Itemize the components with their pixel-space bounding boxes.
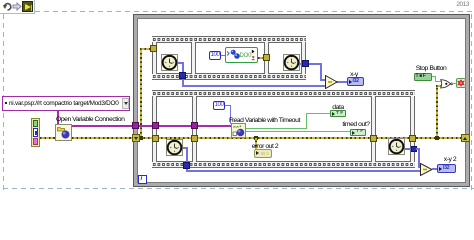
label x-y	[342, 71, 366, 78]
wire error drop to error out 2	[255, 138, 257, 151]
error wire open node to shift register	[72, 137, 133, 139]
wire 100 to read node	[225, 105, 231, 107]
numeric constant 100 (frame2)	[209, 51, 221, 60]
indicator data TF	[330, 110, 346, 117]
wire junction at error out 2 branch	[254, 136, 258, 140]
label error out 2	[246, 143, 284, 150]
page dashed boundary bottom	[3, 188, 474, 189]
toolbar icon forward arrow	[12, 2, 22, 11]
wire psp to open node	[57, 110, 59, 124]
page dashed boundary top	[35, 11, 474, 12]
wire 100 to DO0 node	[221, 55, 229, 57]
while loop	[133, 14, 470, 187]
flat sequence 1 frame divider 1	[191, 42, 196, 74]
right shift register	[461, 134, 470, 143]
Open Variable Connection node	[55, 124, 72, 141]
tunnel purple on while-loop border	[132, 122, 139, 129]
blue wire clock4 to subtract2	[405, 148, 413, 150]
blue wires top sequence clock 2	[300, 63, 321, 65]
purple wire open node to loop	[72, 125, 133, 127]
blue wires top sequence clock 1	[178, 62, 184, 64]
or gate	[440, 79, 454, 89]
label Open Variable Connection	[56, 116, 124, 123]
numeric constant 100 (bottom)	[213, 101, 225, 110]
error wire const to open node	[40, 137, 55, 139]
wire error main run inside loop	[139, 137, 462, 139]
indicator x-y 2 I32	[437, 164, 456, 173]
loop conditional terminal	[456, 78, 466, 88]
loop iteration terminal i	[138, 175, 147, 184]
flat sequence 1 top border	[152, 36, 306, 43]
toolbar box	[0, 0, 35, 14]
tunnel error on sequence 2 divider 1	[191, 135, 198, 142]
shared variable write node DO0	[225, 47, 258, 63]
purple wire inside loop to read node	[137, 125, 231, 127]
subtract node 1	[325, 75, 338, 89]
flat sequence 2 left border	[152, 96, 157, 162]
shared variable psp url constant	[2, 96, 130, 111]
wire junction at top-sequence error branch	[139, 136, 143, 140]
tunnel blue bottom border of bottom sequence	[183, 162, 190, 169]
blue wire clock3 down and along bottom	[183, 147, 187, 149]
error cluster constant	[31, 118, 40, 147]
tunnel blue bottom of top sequence	[179, 72, 186, 79]
wire junction at Or gate error branch	[435, 136, 439, 140]
label x-y 2	[438, 156, 462, 163]
subtract node 2	[420, 163, 433, 176]
indicator timed out TF	[350, 129, 366, 136]
error wire DO0 out	[258, 57, 267, 59]
clock wait ms frame3	[283, 54, 300, 71]
toolbar icon LabVIEW VI	[22, 1, 33, 12]
tunnel error into top sequence	[150, 45, 157, 52]
left shift register	[132, 134, 140, 142]
flat sequence 2 frame divider 2	[371, 96, 376, 162]
page dashed boundary left	[3, 13, 4, 190]
tunnel error on sequence 2 left border	[152, 135, 159, 142]
indicator error out 2	[254, 149, 272, 158]
tunnel purple on sequence 2 left border	[152, 122, 159, 129]
tunnel blue right border bottom sequence	[411, 146, 417, 152]
flat sequence 2 right border	[410, 96, 415, 162]
label Stop Button	[408, 65, 454, 72]
blue wire subtract2 to x-y 2 indicator	[432, 168, 438, 170]
blue wire subtract1 to x-y indicator	[336, 81, 347, 83]
label Read Variable with Timeout	[229, 117, 300, 124]
flat sequence 2 top border	[152, 90, 415, 97]
wire error branch up to Or gate	[436, 85, 438, 138]
flat sequence 1 right border	[301, 42, 306, 74]
label data	[326, 104, 350, 111]
Stop Button boolean control	[414, 73, 432, 81]
clock wait ms bottom frame4	[388, 138, 405, 155]
flat sequence 1 bottom border	[152, 73, 306, 80]
wire or gate to conditional terminal	[452, 83, 456, 84]
indicator x-y I32	[347, 77, 364, 86]
label timed out?	[340, 121, 372, 128]
green wire stop to or gate	[432, 76, 436, 77]
toolbar icon back-circle arrow	[2, 1, 13, 12]
flat sequence 1 frame divider 2	[264, 42, 269, 74]
tunnel purple on sequence 2 divider 1	[191, 122, 198, 129]
tunnel error on frame divider	[263, 54, 270, 61]
page dashed boundary right	[471, 11, 472, 190]
Read Variable node	[231, 123, 246, 138]
tunnel blue right of top sequence	[302, 60, 309, 67]
flat sequence 2 bottom border	[152, 161, 415, 168]
clock wait ms bottom frame1	[166, 139, 183, 156]
tunnel error on sequence 2 right border	[409, 135, 416, 142]
flat sequence 2 frame divider 1	[192, 96, 197, 162]
svg-text:DO0: DO0	[240, 53, 253, 59]
year label 2013	[445, 1, 469, 8]
flat sequence 1 left border	[152, 42, 157, 74]
green wire timed out	[246, 131, 350, 132]
tunnel error on sequence 2 divider 2	[370, 135, 377, 142]
green wire data	[246, 128, 307, 129]
wire error branch up to top sequence	[140, 48, 142, 138]
clock wait ms frame1	[161, 54, 178, 71]
